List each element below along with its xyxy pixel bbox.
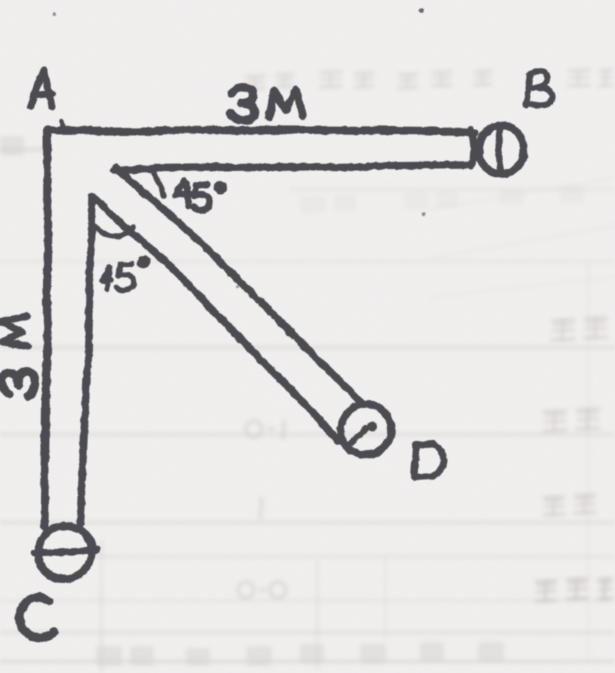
ball D axis dot — [368, 423, 377, 432]
faint bottom row — [96, 642, 504, 666]
ink speck right — [422, 212, 425, 215]
angle arc at 45 lower — [91, 220, 134, 236]
faint table line y601 — [0, 599, 615, 602]
faint char block right 2 — [543, 407, 600, 433]
label 3M side: digit 3 rotated — [2, 371, 35, 396]
label 45 deg lower: digit 4 — [103, 267, 111, 289]
label D — [413, 444, 443, 478]
faint char row mid — [300, 185, 584, 213]
faint table line y348 — [0, 346, 615, 349]
faint diagonal bleed line 2 — [432, 226, 615, 258]
label 3M top: letter M — [269, 90, 302, 118]
rod AC right edge — [80, 196, 93, 524]
label 45 deg upper: degree dot — [215, 182, 228, 195]
faint table line y435 — [0, 433, 615, 436]
faint table line y662 — [0, 660, 615, 663]
faint vertical line x317 — [316, 560, 319, 670]
ball D axis stroke — [352, 429, 367, 444]
faint table line y150 — [0, 148, 48, 151]
ball D — [341, 405, 391, 455]
faint vertical line x588 — [587, 263, 590, 663]
angle tick at 45 upper — [154, 170, 165, 197]
rod AD top edge — [116, 166, 361, 404]
faint center col digit 1 — [260, 497, 262, 519]
ink speck top — [420, 8, 424, 12]
faint char row top — [245, 69, 613, 90]
faint left edge block — [0, 136, 24, 156]
label 45 deg upper: digit 5 — [194, 185, 210, 211]
faint center col digits 6-0 — [238, 582, 286, 598]
faint char block right 1 — [551, 316, 608, 342]
ball B — [478, 124, 524, 174]
label 45 deg lower: digit 5 — [116, 264, 133, 290]
faint diagonal bleed line 3 — [430, 277, 615, 297]
label C — [20, 596, 54, 638]
ball C axis stroke — [34, 550, 97, 553]
faint char block right 4 — [535, 577, 613, 603]
rod AD bottom edge — [94, 196, 340, 442]
ink speck mid — [236, 285, 239, 288]
rod AB top edge — [47, 130, 474, 132]
label 3M top: digit 3 — [230, 88, 255, 120]
rod AC left edge — [44, 130, 47, 527]
faint vertical line x385 — [384, 556, 387, 640]
label A — [31, 70, 52, 107]
label 45 deg lower: degree dot — [137, 256, 150, 269]
label 45 deg upper: digit 4 — [176, 182, 191, 207]
faint char block right 3 — [543, 493, 596, 517]
rod AB end cap at B — [470, 129, 473, 166]
ball B axis stroke — [498, 127, 501, 171]
faint table line y633 — [0, 631, 615, 634]
faint table line y262 — [0, 260, 615, 263]
label 3M side: letter M rotated — [0, 316, 28, 346]
ink speck left — [54, 12, 58, 16]
rod AB bottom edge — [114, 165, 466, 169]
label B — [527, 71, 552, 105]
faint table line y557 — [95, 555, 615, 558]
faint table line y523 — [0, 521, 615, 524]
faint center col digits 8-1 — [246, 420, 284, 440]
faint diagonal bleed line 1 — [430, 178, 615, 209]
faint vertical line x102 — [100, 540, 103, 673]
ball C — [38, 526, 92, 578]
faint table line y190 — [290, 188, 615, 191]
tick on rod AB near A — [61, 121, 62, 131]
